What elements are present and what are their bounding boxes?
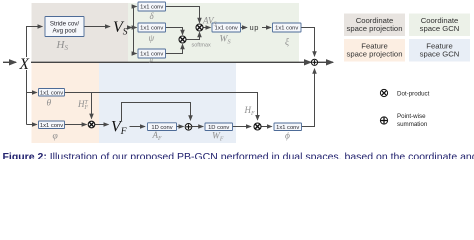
svg-text:θ: θ <box>47 99 52 109</box>
svg-text:space projection: space projection <box>347 50 403 59</box>
svg-text:1x1 conv: 1x1 conv <box>40 123 63 129</box>
svg-text:X: X <box>19 56 30 73</box>
svg-text:1x1 conv: 1x1 conv <box>215 26 238 32</box>
svg-text:Avg pool: Avg pool <box>53 28 77 35</box>
svg-text:HF: HF <box>244 105 256 117</box>
svg-text:1x1 conv: 1x1 conv <box>140 26 163 32</box>
svg-text:1x1 conv: 1x1 conv <box>40 90 63 96</box>
svg-text:1D conv: 1D conv <box>208 125 229 131</box>
svg-text:Figure 2: Illustration of our: Figure 2: Illustration of our proposed P… <box>3 151 474 159</box>
svg-text:ψ: ψ <box>149 33 155 43</box>
svg-text:space GCN: space GCN <box>420 24 460 33</box>
svg-text:space projection: space projection <box>347 24 403 33</box>
svg-text:Stride cov/: Stride cov/ <box>50 20 80 27</box>
svg-text:summation: summation <box>397 121 428 128</box>
svg-text:Dot-product: Dot-product <box>397 91 430 98</box>
svg-text:Point-wise: Point-wise <box>397 113 426 120</box>
svg-text:φ: φ <box>53 132 58 142</box>
svg-text:up: up <box>250 23 260 32</box>
svg-text:softmax: softmax <box>192 43 212 49</box>
svg-text:space GCN: space GCN <box>420 50 460 59</box>
svg-text:1x1 conv: 1x1 conv <box>276 125 299 131</box>
svg-text:1x1 conv: 1x1 conv <box>140 5 163 11</box>
svg-text:ϕ: ϕ <box>285 132 290 142</box>
svg-text:1x1 conv: 1x1 conv <box>275 26 298 32</box>
svg-text:μ: μ <box>150 55 154 63</box>
